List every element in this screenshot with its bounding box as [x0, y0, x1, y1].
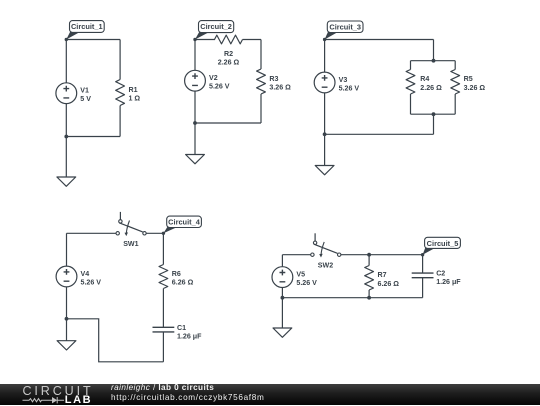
- wire: [324, 93, 326, 166]
- voltage source V3: [314, 72, 359, 93]
- wire: [66, 287, 68, 341]
- svg-text:6.26 Ω: 6.26 Ω: [172, 279, 194, 287]
- switch SW2: [311, 233, 341, 269]
- wire: [195, 39, 215, 41]
- voltage source V2: [185, 70, 230, 91]
- wire: [282, 297, 422, 299]
- svg-text:SW1: SW1: [123, 240, 138, 248]
- junction: [432, 112, 436, 116]
- svg-text:R1: R1: [129, 86, 138, 94]
- voltage source V4: [56, 266, 101, 287]
- wire: [119, 40, 121, 80]
- wire: [422, 278, 424, 298]
- ground (circuit 1): [57, 177, 76, 186]
- wire: [282, 254, 310, 256]
- svg-text:5.26 V: 5.26 V: [209, 83, 230, 91]
- ground (circuit 2): [186, 155, 205, 164]
- wire: [146, 232, 163, 234]
- wire: [368, 255, 370, 266]
- wire: [66, 233, 68, 266]
- junction: [65, 317, 69, 321]
- resistor R6: [159, 265, 194, 289]
- wire: [410, 94, 412, 114]
- node label Circuit_2 (callout): [193, 21, 233, 42]
- svg-text:C1: C1: [177, 324, 186, 332]
- svg-text:5.26 V: 5.26 V: [339, 84, 360, 92]
- node label Circuit_5 (callout): [421, 237, 461, 256]
- svg-text:Circuit_4: Circuit_4: [168, 218, 201, 227]
- wire: [341, 254, 423, 256]
- ground (circuit 4): [57, 341, 76, 350]
- svg-text:5 V: 5 V: [80, 95, 91, 103]
- voltage source V5: [272, 267, 317, 288]
- svg-text:V3: V3: [339, 76, 348, 84]
- wire: [324, 40, 326, 73]
- wire: [119, 106, 121, 137]
- resistor R2: [215, 35, 243, 66]
- svg-text:V4: V4: [81, 270, 90, 278]
- svg-text:R5: R5: [464, 75, 473, 83]
- svg-text:5.26 V: 5.26 V: [296, 279, 317, 287]
- svg-text:R2: R2: [224, 50, 233, 58]
- wire: [66, 39, 120, 41]
- wire: [65, 104, 67, 178]
- capacitor C2: [412, 270, 462, 287]
- svg-text:5.26 V: 5.26 V: [81, 278, 102, 286]
- svg-text:R3: R3: [269, 75, 278, 83]
- wire: [281, 255, 283, 267]
- junction: [323, 132, 327, 136]
- wire: [67, 232, 117, 234]
- logo resistor zigzag: [23, 399, 53, 402]
- svg-text:R6: R6: [172, 270, 181, 278]
- wire: [368, 290, 370, 298]
- svg-text:1 Ω: 1 Ω: [129, 95, 141, 103]
- svg-text:SW2: SW2: [318, 261, 333, 269]
- svg-text:Circuit_5: Circuit_5: [427, 239, 459, 248]
- wire: [194, 40, 196, 71]
- junction: [64, 135, 68, 139]
- junction: [281, 296, 285, 300]
- svg-text:1.26 μF: 1.26 μF: [436, 278, 461, 286]
- svg-text:Circuit_3: Circuit_3: [329, 23, 361, 32]
- svg-text:3.26 Ω: 3.26 Ω: [269, 84, 291, 92]
- svg-text:Circuit_2: Circuit_2: [200, 22, 232, 31]
- resistor R5: [451, 70, 486, 95]
- svg-text:V1: V1: [80, 87, 89, 95]
- voltage source V1: [56, 83, 91, 104]
- wire: [67, 319, 164, 362]
- svg-text:6.26 Ω: 6.26 Ω: [378, 280, 400, 288]
- ground (circuit 5): [273, 328, 292, 337]
- svg-text:R4: R4: [420, 75, 429, 83]
- wire: [410, 61, 412, 70]
- svg-text:R7: R7: [378, 271, 387, 279]
- svg-text:V2: V2: [209, 74, 218, 82]
- wire: [194, 91, 196, 154]
- wire: [454, 94, 456, 114]
- wire: [325, 133, 434, 135]
- wire: [422, 255, 424, 273]
- svg-text:2.26 Ω: 2.26 Ω: [420, 84, 442, 92]
- wire: [411, 113, 456, 115]
- logo diode: [52, 397, 57, 403]
- footer bar: [0, 384, 540, 405]
- wire: [162, 233, 164, 264]
- wire: [162, 332, 164, 362]
- wire: [260, 40, 262, 70]
- svg-text:C2: C2: [436, 270, 445, 278]
- svg-text:1.26 μF: 1.26 μF: [177, 332, 202, 340]
- svg-text:3.26 Ω: 3.26 Ω: [464, 84, 486, 92]
- junction: [367, 253, 371, 257]
- switch SW1: [116, 212, 146, 248]
- junction: [193, 121, 197, 125]
- wire: [454, 61, 456, 70]
- node label Circuit_3 (callout): [323, 21, 363, 41]
- wire: [66, 136, 120, 138]
- resistor R3: [257, 69, 292, 94]
- node label Circuit_1 (callout): [65, 21, 105, 42]
- junction: [367, 296, 371, 300]
- resistor R1: [116, 80, 141, 106]
- junction: [432, 59, 436, 63]
- wire: [433, 114, 435, 134]
- capacitor C1: [153, 324, 203, 341]
- wire: [243, 39, 262, 41]
- wire: [162, 289, 164, 328]
- wire: [260, 94, 262, 123]
- wire: [433, 40, 435, 61]
- node label Circuit_4 (callout): [162, 216, 202, 235]
- svg-text:V5: V5: [296, 271, 305, 279]
- wire: [195, 122, 261, 124]
- svg-text:2.26 Ω: 2.26 Ω: [218, 58, 240, 66]
- wire: [411, 60, 456, 62]
- svg-text:Circuit_1: Circuit_1: [71, 22, 103, 31]
- wire: [65, 40, 67, 83]
- wire: [281, 288, 283, 328]
- resistor R7: [365, 266, 400, 291]
- wire: [325, 39, 434, 41]
- CircuitLab logo: [23, 384, 94, 398]
- ground (circuit 3): [315, 166, 334, 175]
- resistor R4: [406, 70, 442, 95]
